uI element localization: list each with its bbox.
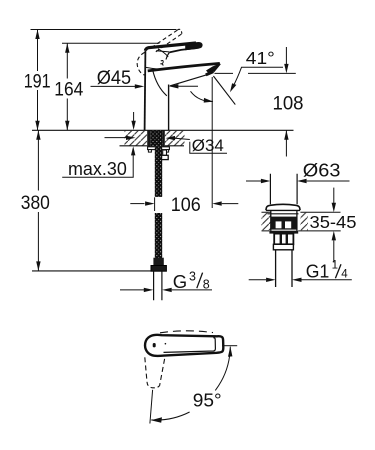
svg-text:G1: G1	[306, 260, 330, 281]
mounting washer	[148, 147, 170, 152]
body under-curve	[153, 70, 167, 96]
svg-text:1: 1	[332, 260, 338, 272]
dimension Ø63	[246, 161, 350, 184]
lever underside	[169, 48, 197, 52]
svg-text:95°: 95°	[193, 389, 222, 410]
dashed raised lever tip	[177, 29, 182, 33]
lever top edge	[145, 43, 196, 51]
faucet body outline	[137, 29, 220, 130]
lever inner line	[156, 51, 169, 52]
wire extension line (164 level)	[62, 42, 160, 44]
body left edge	[144, 51, 147, 131]
41 degree arc arrow	[191, 91, 214, 102]
spout tip face	[213, 63, 220, 71]
wire extension line top (191 level)	[31, 29, 177, 31]
drain flange band	[269, 231, 298, 234]
svg-text:3: 3	[189, 270, 196, 284]
dimension Ø45	[91, 68, 199, 89]
drain tail pipe	[276, 250, 292, 287]
flex hose upper	[155, 146, 162, 197]
dimension G1 1/4	[249, 260, 352, 282]
dimension 191	[24, 30, 51, 131]
Ø34 right arrow	[166, 136, 190, 140]
aerator axis vertical line	[211, 77, 213, 208]
dimension 380	[21, 130, 50, 271]
dimension max.30	[62, 112, 136, 179]
counter hatch left	[125, 131, 148, 146]
lever neck	[166, 52, 169, 59]
body seam	[146, 67, 158, 69]
shank right wall	[162, 130, 164, 146]
dashed raised lever line 2	[156, 34, 182, 52]
basin hatch left	[262, 213, 271, 231]
body right edge	[168, 85, 170, 131]
water stream line	[213, 76, 235, 105]
pivot curve	[158, 49, 168, 57]
dimension G3/8	[120, 270, 212, 293]
svg-text:8: 8	[203, 277, 210, 291]
extension line spout level	[215, 72, 296, 74]
mounting stud	[163, 150, 167, 155]
bottom reference line	[32, 270, 151, 272]
drain plug tube	[270, 174, 297, 205]
dashed raised lever line 1	[152, 30, 178, 47]
svg-text:35-45: 35-45	[310, 212, 357, 232]
dashed top arc fragments	[160, 331, 213, 333]
counter bottom line	[120, 145, 185, 147]
svg-text:164: 164	[54, 79, 83, 101]
drain cap	[266, 204, 300, 214]
svg-text:max.30: max.30	[68, 159, 127, 179]
svg-text:41°: 41°	[246, 48, 275, 68]
flex hose lower	[155, 213, 162, 259]
aerator	[206, 72, 214, 75]
spout top edge	[148, 63, 220, 71]
shank left wall	[147, 130, 150, 146]
bottom view dashed handle	[145, 357, 165, 388]
nut ring	[273, 244, 293, 250]
svg-text:Ø34: Ø34	[192, 136, 224, 155]
lever tip	[186, 43, 202, 49]
cartridge squiggle	[160, 60, 163, 65]
svg-text:4: 4	[341, 268, 348, 280]
dimension 41 degrees	[230, 48, 283, 92]
hose arrow (Ø34 left)	[105, 136, 136, 140]
95 degree arc	[151, 346, 233, 423]
dimension Ø34 leader	[190, 136, 227, 155]
G3/8 tail pipe	[154, 271, 162, 300]
spout underside	[170, 75, 207, 86]
basin hatch right	[300, 213, 308, 231]
dimension 106	[130, 194, 238, 216]
dimension 108	[273, 47, 304, 157]
95 degree extension line right	[222, 345, 237, 347]
spout tip fill	[206, 64, 219, 74]
svg-text:Ø63: Ø63	[303, 161, 341, 181]
hose collar	[153, 258, 163, 266]
svg-text:G: G	[173, 271, 187, 292]
counter top line	[32, 129, 294, 131]
mounting nut	[161, 155, 168, 159]
counter hatch right	[165, 131, 185, 146]
dashed knob arc	[137, 52, 145, 75]
basin deck lines	[262, 212, 341, 231]
castellated nut	[274, 234, 293, 245]
bottom view solid handle	[145, 335, 223, 356]
hose nut	[151, 266, 166, 272]
shank braid	[150, 130, 162, 146]
svg-text:380: 380	[21, 192, 50, 214]
svg-text:Ø45: Ø45	[97, 68, 131, 89]
svg-text:106: 106	[171, 194, 201, 216]
dimension 95 degrees	[193, 389, 222, 410]
svg-text:108: 108	[273, 93, 304, 115]
svg-text:191: 191	[24, 71, 51, 93]
drain body	[271, 210, 297, 231]
dimension 164	[54, 43, 83, 130]
95 degree extension line bottom	[150, 390, 153, 424]
dimension 35-45	[310, 188, 357, 263]
